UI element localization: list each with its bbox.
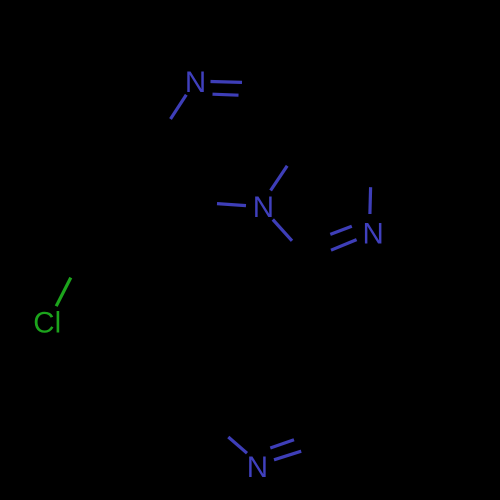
svg-text:N: N [185,66,206,99]
svg-text:N: N [363,218,384,251]
svg-text:N: N [247,451,268,484]
svg-text:Cl: Cl [33,306,61,339]
svg-text:N: N [253,191,274,224]
